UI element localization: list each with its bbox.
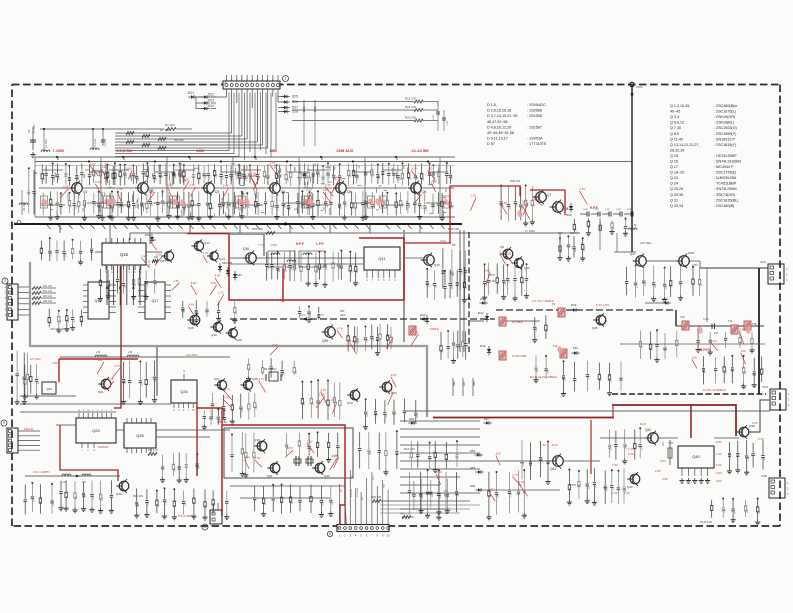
svg-text:RH 100: RH 100 bbox=[174, 138, 184, 142]
wire maroon carrier bus bbox=[612, 405, 736, 436]
svg-text:120P: 120P bbox=[605, 209, 611, 211]
svg-text:2.2K: 2.2K bbox=[413, 330, 419, 334]
RF stage 6 transistor Q6 bbox=[382, 163, 384, 171]
svg-text:5.5~6.0MHz: 5.5~6.0MHz bbox=[178, 514, 195, 518]
svg-text:D49: D49 bbox=[571, 303, 577, 307]
svg-text:2.8V: 2.8V bbox=[655, 469, 661, 473]
svg-text:5.2V: 5.2V bbox=[350, 339, 356, 343]
svg-text:68P: 68P bbox=[60, 319, 62, 323]
svg-text:9.2V: 9.2V bbox=[300, 313, 306, 317]
svg-text:C143: C143 bbox=[703, 318, 709, 321]
svg-text:R44 2.2K: R44 2.2K bbox=[404, 447, 415, 451]
svg-text:68P: 68P bbox=[453, 272, 455, 276]
svg-text:Q4: Q4 bbox=[281, 190, 285, 194]
svg-text:D 3,7,14,19,21~30: D 3,7,14,19,21~30 bbox=[487, 114, 517, 118]
svg-text:2.4V: 2.4V bbox=[223, 396, 229, 400]
svg-text:R96 4.7K: R96 4.7K bbox=[148, 449, 158, 452]
svg-text:Q41: Q41 bbox=[550, 467, 556, 471]
svg-text:14.05~14.05MHz: 14.05~14.05MHz bbox=[703, 388, 726, 392]
svg-text:22P: 22P bbox=[588, 485, 590, 489]
svg-text:1.9V: 1.9V bbox=[612, 491, 618, 495]
svg-text:Q15: Q15 bbox=[120, 252, 129, 257]
wire band third rail bbox=[35, 165, 455, 167]
wire dashed IF vertical bbox=[468, 232, 470, 352]
svg-text:Q10: Q10 bbox=[434, 263, 440, 267]
svg-text:C50 470: C50 470 bbox=[105, 138, 107, 147]
svg-text:7.9V: 7.9V bbox=[668, 441, 674, 445]
svg-text:: 1SV53A: : 1SV53A bbox=[527, 137, 543, 141]
Q15 area clutter bbox=[99, 269, 101, 281]
svg-text:: MC4044 P: : MC4044 P bbox=[714, 165, 734, 169]
svg-text:68P: 68P bbox=[152, 202, 154, 206]
svg-text:40~45,48~51,58: 40~45,48~51,58 bbox=[487, 131, 514, 135]
svg-text:2.2K: 2.2K bbox=[358, 175, 360, 180]
red annotations right bbox=[739, 331, 743, 343]
svg-text:19KHz: 19KHz bbox=[24, 427, 34, 431]
filter select diodes D42 D43 D44 bbox=[425, 318, 429, 321]
svg-text:1.0V: 1.0V bbox=[624, 491, 630, 495]
svg-text:22P: 22P bbox=[273, 204, 275, 208]
svg-text:100: 100 bbox=[489, 487, 494, 491]
svg-text:R59 330: R59 330 bbox=[149, 259, 151, 268]
svg-text:Q27: Q27 bbox=[214, 377, 220, 381]
svg-text:22P: 22P bbox=[216, 173, 218, 177]
svg-text:14M: 14M bbox=[196, 148, 204, 153]
wire thin bottom rail bbox=[404, 410, 770, 412]
svg-text:22P: 22P bbox=[523, 462, 525, 466]
IC Q11 balanced mixer bbox=[364, 247, 400, 270]
svg-text:T15: T15 bbox=[752, 322, 757, 326]
svg-text:68P: 68P bbox=[498, 493, 500, 497]
svg-text:Q11: Q11 bbox=[378, 256, 386, 261]
amp Q42 bbox=[648, 433, 659, 444]
capacitor cluster bottom left corner bbox=[24, 485, 26, 499]
svg-text:Q 3,4: Q 3,4 bbox=[670, 115, 679, 119]
svg-text:: SN16913 P: : SN16913 P bbox=[714, 137, 735, 141]
svg-text:2.2K: 2.2K bbox=[310, 312, 312, 317]
svg-text:2: 2 bbox=[4, 279, 6, 283]
svg-text:2.4V: 2.4V bbox=[223, 184, 229, 188]
wire heavy dashed carrier bbox=[612, 393, 766, 395]
detector diodes D52-D57 bbox=[411, 421, 414, 425]
svg-text:22P: 22P bbox=[725, 369, 727, 373]
svg-text:: 2SK19(GR): : 2SK19(GR) bbox=[714, 115, 735, 119]
svg-text:Q13: Q13 bbox=[204, 241, 210, 245]
svg-text:100: 100 bbox=[496, 452, 501, 456]
svg-text:2.2V: 2.2V bbox=[628, 452, 634, 456]
capacitor cluster right of Q25 bbox=[162, 455, 164, 467]
svg-text:2.7V: 2.7V bbox=[244, 456, 250, 460]
svg-text:47P: 47P bbox=[331, 398, 336, 402]
svg-text:R62 100: R62 100 bbox=[43, 290, 53, 293]
svg-text:21,24.5,28M: 21,24.5,28M bbox=[512, 354, 526, 358]
svg-text:8.8V: 8.8V bbox=[191, 281, 197, 285]
svg-text:Q 33,34: Q 33,34 bbox=[670, 204, 683, 208]
svg-text:L7 150u: L7 150u bbox=[525, 229, 535, 233]
connector J8 bottom bbox=[337, 525, 389, 532]
svg-text:Q9: Q9 bbox=[500, 245, 504, 249]
wire right mid rail bbox=[620, 343, 765, 345]
svg-text:10K: 10K bbox=[747, 508, 749, 512]
svg-text:68P: 68P bbox=[655, 283, 657, 287]
alignment highlights bbox=[41, 199, 48, 208]
svg-text:8.2V: 8.2V bbox=[552, 443, 558, 447]
svg-text:D49: D49 bbox=[573, 346, 578, 350]
svg-text:D56: D56 bbox=[470, 484, 476, 488]
svg-text:2.4V: 2.4V bbox=[108, 377, 114, 381]
connector J4 small bbox=[210, 510, 222, 524]
transistors Q18 Q19 Q20 bbox=[190, 315, 200, 325]
svg-text:Q7: Q7 bbox=[547, 193, 551, 197]
svg-text:: 2SC1815(Y): : 2SC1815(Y) bbox=[714, 143, 736, 147]
svg-text:8.8V: 8.8V bbox=[211, 281, 217, 285]
svg-text:4.7V: 4.7V bbox=[250, 172, 256, 176]
svg-text:Q47: Q47 bbox=[630, 252, 636, 256]
svg-text:2.4V: 2.4V bbox=[189, 183, 195, 187]
svg-text:68P: 68P bbox=[85, 494, 87, 498]
svg-text:C1: C1 bbox=[27, 129, 31, 133]
svg-text:4.9V: 4.9V bbox=[52, 361, 58, 365]
svg-text:D54: D54 bbox=[470, 449, 476, 453]
svg-text:L38: L38 bbox=[128, 351, 133, 354]
filter row Q16 HPF LPF bbox=[246, 253, 257, 264]
wire harness to det bbox=[400, 420, 480, 422]
svg-text:: 2SC460(B): : 2SC460(B) bbox=[714, 204, 734, 208]
svg-text:Q 5,6,12: Q 5,6,12 bbox=[670, 121, 684, 125]
svg-text:Q 16: Q 16 bbox=[670, 160, 678, 164]
svg-text:5.2V: 5.2V bbox=[523, 203, 529, 207]
svg-text:2.4V: 2.4V bbox=[272, 343, 278, 347]
svg-text:Q3: Q3 bbox=[215, 190, 219, 194]
capacitor cluster below carrier block bbox=[254, 486, 256, 497]
RF stage 1 transistor Q1 bbox=[41, 164, 43, 174]
svg-text:R46: R46 bbox=[340, 310, 345, 313]
svg-text:Q17: Q17 bbox=[152, 299, 159, 303]
capacitor cluster bottom right bbox=[408, 472, 410, 490]
svg-text:0.8V: 0.8V bbox=[739, 327, 745, 331]
wire parallel verticals bbox=[459, 230, 461, 352]
carrier oscillator Q30 Q31 Q32 bbox=[224, 428, 353, 478]
svg-text:Q30: Q30 bbox=[254, 438, 260, 442]
wire heavy VFO vertical bbox=[758, 268, 760, 394]
wires R23 R24 R25 bbox=[292, 101, 414, 103]
svg-text:R24 100: R24 100 bbox=[405, 105, 416, 109]
svg-text:4: 4 bbox=[204, 525, 206, 529]
svg-text:Q43: Q43 bbox=[627, 485, 633, 489]
svg-text:100K: 100K bbox=[340, 314, 346, 317]
svg-text:2.2K: 2.2K bbox=[601, 376, 603, 381]
svg-text:R64 100: R64 100 bbox=[43, 300, 53, 303]
svg-text:5.2V: 5.2V bbox=[501, 201, 507, 205]
svg-text:R8: R8 bbox=[452, 243, 456, 247]
wire VCO line bbox=[631, 85, 633, 253]
wire bus to band switches bbox=[115, 132, 232, 134]
svg-text:10K: 10K bbox=[645, 282, 647, 286]
svg-text:D42: D42 bbox=[478, 311, 484, 315]
svg-text:5.4V 1.5V: 5.4V 1.5V bbox=[596, 303, 609, 307]
wire gray bus main bbox=[30, 262, 427, 417]
svg-text:T14: T14 bbox=[728, 320, 733, 323]
svg-text:2.6V: 2.6V bbox=[321, 388, 327, 392]
svg-text:C191: C191 bbox=[447, 120, 449, 126]
capacitor cluster left edge mid bbox=[16, 350, 18, 373]
svg-text:H.P.F: H.P.F bbox=[296, 242, 304, 246]
svg-text:3.1V: 3.1V bbox=[331, 454, 337, 458]
svg-text:: 2SC1675(L): : 2SC1675(L) bbox=[714, 110, 736, 114]
svg-text:2.2K: 2.2K bbox=[35, 191, 37, 196]
svg-text:2.2K: 2.2K bbox=[256, 404, 258, 409]
harness to J8 bbox=[339, 484, 341, 525]
buffer Q47 Q36 to VFO bbox=[636, 256, 647, 267]
svg-text:1.5V: 1.5V bbox=[287, 446, 293, 450]
svg-text:Q29: Q29 bbox=[116, 492, 122, 496]
svg-text:Q 15: Q 15 bbox=[670, 154, 678, 158]
svg-text:Q 13,14,21,22,27,: Q 13,14,21,22,27, bbox=[670, 143, 700, 147]
svg-text:10K: 10K bbox=[156, 378, 158, 382]
svg-text:R50 560: R50 560 bbox=[252, 227, 263, 231]
svg-text:0.5~1.0MHz: 0.5~1.0MHz bbox=[33, 470, 50, 474]
svg-text:22P: 22P bbox=[43, 176, 45, 180]
svg-text:Q26: Q26 bbox=[180, 390, 187, 394]
svg-text:: 1S1555: : 1S1555 bbox=[527, 114, 542, 118]
svg-text:10K: 10K bbox=[283, 371, 285, 375]
svg-text:T12: T12 bbox=[553, 344, 558, 348]
svg-text:D4: D4 bbox=[188, 156, 192, 160]
svg-text:1.5-3.5M: 1.5-3.5M bbox=[116, 148, 132, 153]
svg-text:VR1: VR1 bbox=[662, 441, 665, 446]
regulator Q23 and coils bbox=[60, 356, 230, 358]
svg-text:1.5V: 1.5V bbox=[716, 452, 722, 456]
transistors Q9 Q22 bbox=[503, 249, 513, 259]
svg-text:R145 2.2K: R145 2.2K bbox=[700, 520, 713, 524]
svg-text:H.P.F: H.P.F bbox=[590, 206, 598, 210]
svg-text:D 9,11,13,17: D 9,11,13,17 bbox=[487, 137, 508, 141]
svg-text:Q 11,40: Q 11,40 bbox=[670, 137, 683, 141]
IC Q15 bbox=[102, 243, 146, 265]
svg-text:Q35: Q35 bbox=[322, 339, 328, 343]
svg-text:2.1V: 2.1V bbox=[758, 437, 764, 441]
svg-text:22P: 22P bbox=[714, 332, 719, 335]
svg-text:10K: 10K bbox=[164, 202, 166, 206]
svg-text:100: 100 bbox=[692, 356, 697, 360]
svg-text:: SN74LS163AN: : SN74LS163AN bbox=[714, 160, 741, 164]
svg-text:Q 17: Q 17 bbox=[670, 165, 678, 169]
RF band fine texture bbox=[394, 184, 396, 189]
svg-text:10K: 10K bbox=[206, 504, 208, 508]
svg-text:L27 150u: L27 150u bbox=[30, 358, 41, 361]
svg-text:2.2K: 2.2K bbox=[426, 206, 428, 211]
svg-text:22P: 22P bbox=[184, 308, 186, 312]
svg-text:5.9V: 5.9V bbox=[716, 463, 722, 467]
capacitor cluster mid right band bbox=[563, 361, 565, 375]
connector J9 bottom left bbox=[1, 420, 7, 426]
svg-text:4.7V: 4.7V bbox=[306, 188, 312, 192]
svg-text:2.2K: 2.2K bbox=[589, 375, 591, 380]
wire stage separators bbox=[34, 157, 36, 217]
svg-text:R70: R70 bbox=[490, 273, 495, 277]
svg-text:2.7V: 2.7V bbox=[628, 447, 634, 451]
svg-text:R39 47: R39 47 bbox=[570, 232, 578, 235]
capacitor cluster right of D46 bbox=[359, 432, 361, 448]
AF amp Q41 bbox=[553, 456, 564, 467]
svg-text:10K: 10K bbox=[50, 320, 52, 324]
wire red VCO control bbox=[114, 266, 121, 408]
connector J1 control header bbox=[223, 81, 280, 89]
reference divider chain Q29 bbox=[25, 475, 120, 477]
svg-text:D41: D41 bbox=[480, 297, 486, 301]
wire gray bus q16 bbox=[230, 234, 264, 256]
svg-text:22P: 22P bbox=[509, 279, 511, 283]
svg-text:Q40: Q40 bbox=[692, 454, 700, 459]
svg-text:2.4V: 2.4V bbox=[117, 187, 123, 191]
svg-text:7.9V: 7.9V bbox=[612, 463, 618, 467]
svg-text:D25: D25 bbox=[292, 95, 298, 99]
svg-text:10K: 10K bbox=[135, 204, 137, 208]
svg-text:2.2K: 2.2K bbox=[511, 492, 513, 497]
svg-text:L3 100u: L3 100u bbox=[95, 138, 97, 147]
svg-text:: 1TT310TE: : 1TT310TE bbox=[527, 142, 547, 146]
RF stage 5 transistor Q5 bbox=[303, 165, 305, 173]
svg-text:Q5: Q5 bbox=[347, 190, 351, 194]
svg-text:1: 1 bbox=[285, 77, 287, 81]
svg-text:C83 C84 C85 C86: C83 C84 C85 C86 bbox=[50, 328, 70, 331]
svg-text:5.2V: 5.2V bbox=[411, 167, 417, 171]
svg-text:D46: D46 bbox=[452, 381, 456, 386]
svg-text:1.2V: 1.2V bbox=[203, 251, 209, 255]
svg-text:2.2K: 2.2K bbox=[148, 501, 150, 506]
svg-text:D6: D6 bbox=[320, 156, 324, 160]
svg-text:R61 100: R61 100 bbox=[43, 285, 53, 288]
svg-text:2.8V: 2.8V bbox=[752, 421, 758, 425]
svg-text:2.4V: 2.4V bbox=[416, 191, 422, 195]
svg-text:68P: 68P bbox=[138, 503, 140, 507]
svg-text:4.8V: 4.8V bbox=[189, 303, 195, 307]
svg-text:2.2K: 2.2K bbox=[500, 250, 506, 254]
wire T15 feed bbox=[706, 268, 708, 322]
svg-text:: 2SK19(BL): : 2SK19(BL) bbox=[714, 121, 734, 125]
svg-text:Q20: Q20 bbox=[236, 338, 242, 342]
svg-text:Q28: Q28 bbox=[252, 377, 258, 381]
svg-text:R36 100: R36 100 bbox=[510, 179, 521, 183]
capacitor row C83-C86 bbox=[48, 309, 50, 319]
connector VFO bottom bbox=[770, 389, 786, 410]
svg-text:Q18: Q18 bbox=[188, 326, 194, 330]
svg-text:D 57: D 57 bbox=[487, 142, 495, 146]
svg-text:: 2SC1775(E): : 2SC1775(E) bbox=[714, 171, 736, 175]
svg-text:120P: 120P bbox=[616, 209, 622, 211]
svg-text:2.4V: 2.4V bbox=[534, 195, 540, 199]
wire band drops right bbox=[559, 233, 561, 252]
connector J2 left bbox=[2, 278, 8, 284]
svg-text:68P: 68P bbox=[352, 268, 354, 272]
svg-text:2.2K: 2.2K bbox=[51, 251, 53, 256]
mixer Q7 Q8 and HPF bbox=[536, 192, 547, 203]
svg-text:TAC: TAC bbox=[383, 483, 386, 488]
svg-text:Q42: Q42 bbox=[645, 428, 651, 432]
svg-text:21-24.5M: 21-24.5M bbox=[412, 148, 430, 153]
svg-text:D22: D22 bbox=[208, 93, 214, 97]
transistors Q33 Q34 bbox=[350, 390, 360, 400]
node 1 mark bbox=[283, 76, 289, 82]
svg-text:D63: D63 bbox=[237, 273, 242, 277]
svg-text:22P: 22P bbox=[350, 173, 352, 177]
crystal oscillator Q27 Q28 B1 bbox=[217, 380, 226, 389]
svg-text:L40 470u: L40 470u bbox=[186, 353, 198, 357]
svg-text:: 2SC1959(Y): : 2SC1959(Y) bbox=[714, 132, 736, 136]
capacitor cluster far right bbox=[703, 356, 705, 367]
wire band rails and AGC bus bbox=[35, 156, 455, 158]
svg-text:22P: 22P bbox=[428, 282, 430, 286]
svg-text:Q 24: Q 24 bbox=[670, 182, 678, 186]
svg-text:Q 29,36: Q 29,36 bbox=[670, 193, 683, 197]
buffer Q38 bbox=[739, 427, 749, 437]
svg-text:100: 100 bbox=[741, 349, 746, 353]
transistor Q10 bbox=[424, 255, 435, 266]
svg-text:D7: D7 bbox=[395, 156, 399, 160]
svg-text:Q19: Q19 bbox=[95, 299, 102, 303]
svg-text:3.9V: 3.9V bbox=[440, 239, 446, 243]
svg-text:L25 150u: L25 150u bbox=[640, 241, 652, 245]
svg-text:1.5K: 1.5K bbox=[490, 279, 496, 283]
svg-text:Q32: Q32 bbox=[324, 474, 330, 478]
svg-text:10K: 10K bbox=[373, 337, 375, 341]
RF stage 3 transistor Q3 bbox=[173, 165, 175, 173]
svg-text:Q24: Q24 bbox=[92, 428, 100, 433]
transistor Q14 bbox=[210, 252, 218, 260]
svg-text:22P: 22P bbox=[53, 502, 55, 506]
svg-text:Q23: Q23 bbox=[46, 387, 52, 391]
svg-text:120P: 120P bbox=[583, 209, 589, 211]
svg-text:2.6V: 2.6V bbox=[391, 373, 397, 377]
svg-text:Q 1,2,10,35,: Q 1,2,10,35, bbox=[670, 104, 690, 108]
svg-text:L19: L19 bbox=[634, 223, 637, 228]
svg-text:8: 8 bbox=[329, 532, 331, 536]
capacitor cluster right band bbox=[639, 331, 641, 343]
svg-text:2.4V: 2.4V bbox=[579, 187, 585, 191]
svg-text:D2: D2 bbox=[56, 156, 60, 160]
svg-text:C47: C47 bbox=[558, 232, 563, 235]
svg-text:: 2SC460(B)or: : 2SC460(B)or bbox=[714, 104, 738, 108]
IF amp Q35 bbox=[230, 318, 495, 320]
svg-text:46,47,52~56: 46,47,52~56 bbox=[487, 120, 508, 124]
wire gray bus v157 bbox=[156, 346, 158, 396]
svg-text:2.7V: 2.7V bbox=[318, 313, 324, 317]
svg-text:22P: 22P bbox=[102, 283, 104, 287]
svg-text:4.7V: 4.7V bbox=[431, 179, 437, 183]
svg-text:D60: D60 bbox=[662, 297, 668, 301]
svg-text:T13: T13 bbox=[680, 315, 685, 319]
wire red PLL path bbox=[196, 403, 198, 476]
svg-text:Q 8,9: Q 8,9 bbox=[670, 132, 679, 136]
svg-text:D1: D1 bbox=[34, 171, 38, 175]
svg-text:D26: D26 bbox=[292, 100, 298, 104]
svg-text:2.8V: 2.8V bbox=[716, 440, 722, 444]
svg-text:R25 100: R25 100 bbox=[405, 116, 416, 120]
svg-text:R1 100: R1 100 bbox=[165, 123, 175, 127]
svg-text:8.4V: 8.4V bbox=[640, 422, 646, 426]
svg-text:-3.9V: -3.9V bbox=[270, 243, 277, 247]
svg-text:2.2K: 2.2K bbox=[278, 205, 280, 210]
svg-text:1.5V: 1.5V bbox=[307, 440, 313, 444]
svg-text:4.7V: 4.7V bbox=[224, 387, 230, 391]
transistor Q44 bbox=[164, 251, 173, 260]
svg-text:1.2K: 1.2K bbox=[387, 389, 393, 393]
svg-text:3.9V: 3.9V bbox=[662, 477, 668, 481]
svg-text:68P: 68P bbox=[279, 268, 281, 272]
svg-text:: 1S1587: : 1S1587 bbox=[527, 125, 542, 129]
red annotations bottom mid bbox=[496, 455, 500, 465]
svg-text:2(1.8),21,24.5,28MHz: 2(1.8),21,24.5,28MHz bbox=[530, 375, 558, 379]
